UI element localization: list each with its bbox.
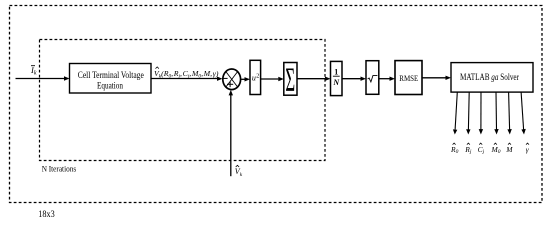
label R_0 hat	[450, 143, 459, 155]
label C_j hat	[478, 143, 485, 155]
svg-text:N Iterations: N Iterations	[42, 164, 76, 174]
block Sigma (summation)	[284, 60, 297, 98]
wire: Sigma to 1/N (crosses inner dashed border)	[297, 77, 331, 81]
label N Iterations	[42, 164, 76, 174]
output wire gamma	[521, 92, 526, 135]
svg-text:u: u	[252, 73, 256, 82]
wire: u^2 to Sigma	[261, 77, 284, 81]
svg-text:18x3: 18x3	[38, 209, 55, 219]
label M_0 hat	[491, 143, 501, 155]
feedback wire V_k (measured voltage, from below into summing junction)	[229, 90, 233, 176]
svg-text:Cell Terminal Voltage: Cell Terminal Voltage	[78, 70, 144, 80]
label R_j hat	[464, 143, 472, 155]
block: Cell Terminal Voltage Equation	[70, 64, 152, 94]
svg-text:M: M	[505, 145, 513, 154]
svg-text:RMSE: RMSE	[399, 73, 418, 83]
svg-text:Equation: Equation	[97, 81, 123, 91]
output wire C_j	[479, 92, 483, 135]
block 1/N	[331, 61, 343, 95]
block u^2	[250, 60, 261, 94]
label M hat	[505, 143, 513, 154]
output wire R_j	[466, 92, 470, 135]
block RMSE	[395, 61, 422, 95]
svg-text:2: 2	[256, 73, 259, 79]
label V_k (measured)	[235, 165, 243, 178]
label V_k(R_0,R_j,C_j,M_0,M,gamma)	[154, 67, 219, 80]
inner dashed box (N Iterations loop)	[40, 40, 326, 161]
wire: summing junction to u^2	[241, 77, 250, 81]
output wire R_0	[453, 92, 457, 135]
input wire I_k	[16, 76, 70, 80]
output wire M	[507, 92, 511, 135]
wire: sqrt to RMSE	[379, 77, 395, 81]
label 18x3	[38, 209, 55, 219]
svg-text:Vk(R0, Rj, Cj, M0, M, γ): Vk(R0, Rj, Cj, M0, M, γ)	[154, 69, 219, 80]
svg-text:MATLAB ga Solver: MATLAB ga Solver	[460, 72, 519, 82]
output wire M_0	[494, 92, 498, 135]
block sqrt	[366, 61, 379, 95]
label gamma hat	[526, 143, 530, 154]
summing junction	[223, 69, 241, 90]
block MATLAB ga Solver	[451, 63, 533, 93]
wire: 1/N to sqrt	[342, 77, 366, 81]
wire: RMSE to MATLAB ga Solver	[422, 76, 451, 80]
wire: Cell block to summing junction	[151, 77, 223, 81]
label I_k (input current)	[30, 65, 37, 77]
svg-text:1: 1	[334, 67, 338, 76]
outer dashed boundary	[10, 6, 543, 203]
svg-text:Σ: Σ	[285, 60, 295, 98]
